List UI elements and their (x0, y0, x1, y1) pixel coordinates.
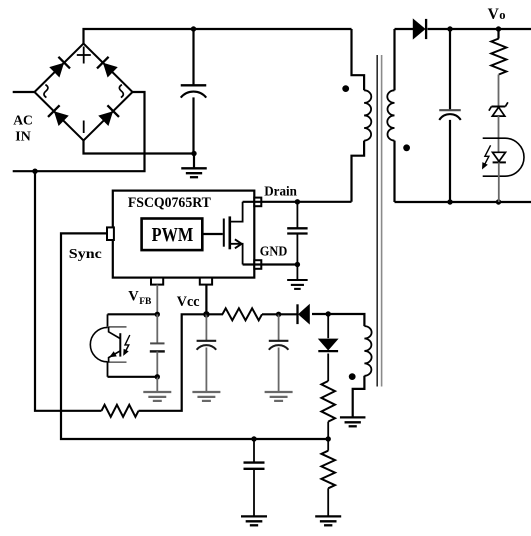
node aux winding junction (326, 311, 331, 316)
node Vo branch bottom (496, 199, 501, 204)
node bridge minus junction (191, 151, 196, 156)
node startup tap on AC line (32, 169, 37, 174)
secondary phase dot (403, 144, 410, 151)
Vo label (488, 6, 506, 23)
ground input side (181, 168, 207, 177)
node Vcc junction (203, 311, 209, 317)
svg-text:GND: GND (260, 245, 288, 260)
node output cap top (447, 26, 452, 31)
node input cap top (191, 26, 196, 31)
wire divider lower lead (327, 439, 329, 451)
wire resistor to zener (498, 75, 500, 107)
capacitor drain-GND C3 (287, 228, 307, 233)
wire startup line down (35, 171, 102, 411)
wire GND ground stub (296, 265, 298, 281)
wire zener to LED (498, 116, 500, 152)
optocoupler LED light arrow (482, 145, 491, 169)
svg-text:PWM: PWM (152, 224, 194, 246)
capacitor Vcc C6 (197, 341, 217, 350)
wire secondary top to diode (395, 28, 414, 30)
optocoupler LED envelope (483, 138, 524, 176)
wire diode to aux node (312, 313, 328, 315)
bridge diode lower-right (99, 105, 119, 125)
transformer auxiliary winding (364, 326, 371, 376)
wire Vcc pin lead (205, 285, 207, 315)
svg-text:Sync: Sync (69, 247, 102, 262)
wire LED to bottom rail (498, 162, 500, 202)
wire input cap top lead (192, 29, 194, 85)
svg-text:Drain: Drain (264, 185, 297, 200)
capacitor input bulk C1 (181, 85, 207, 97)
bridge rectifier BR1 outline (35, 44, 133, 141)
node bottom cap junction (251, 436, 256, 441)
transformer primary winding (364, 90, 371, 140)
wire bottom output rail (395, 201, 531, 203)
VFB label (128, 289, 152, 308)
pin Drain (254, 198, 261, 207)
wire optocoupler collector lead (107, 314, 109, 327)
node divider junction (326, 436, 331, 441)
wire secondary bottom lead (393, 141, 395, 202)
Sync label (69, 247, 102, 262)
wire diode to resistor (327, 354, 329, 382)
wire aux cap bottom lead (278, 348, 280, 393)
ground divider (315, 516, 341, 525)
wire Vcc cap top lead (205, 314, 207, 341)
resistor feedback upper (491, 39, 506, 75)
svg-text:IN: IN (15, 130, 30, 145)
transformer secondary winding (387, 90, 394, 140)
wire resistor to bottom rail (327, 422, 329, 439)
primary phase dot (342, 85, 349, 92)
AC IN label (13, 113, 33, 144)
capacitor aux C7 (269, 341, 289, 350)
ground sync cap (241, 516, 267, 525)
wire lower resistor ground lead (327, 488, 329, 516)
ground VFB (143, 392, 171, 401)
diode aux D2 (318, 339, 338, 351)
wire bridge minus to cap bottom (84, 141, 195, 154)
wire aux winding bottom lead (353, 376, 365, 418)
resistor startup R1 (102, 405, 139, 417)
diode output rectifier D1 (413, 19, 426, 39)
wire drain rail (243, 201, 352, 203)
wire cap node to diode (279, 313, 297, 315)
wire VFB to optocoupler (108, 313, 158, 315)
optocoupler phototransistor Q2 (90, 327, 126, 362)
wire sync to bottom rail (61, 233, 328, 439)
bridge diode upper-right (97, 57, 117, 77)
node output cap bottom (447, 199, 452, 204)
node GND junction (295, 262, 300, 267)
transformer core (377, 55, 381, 387)
ground aux winding (340, 417, 366, 426)
node VFB junction (155, 312, 160, 317)
wire bottom cap top lead (253, 439, 255, 463)
pin VFB (151, 278, 163, 285)
svg-text:FSCQ0765RT: FSCQ0765RT (128, 195, 211, 211)
svg-text:V: V (488, 6, 500, 23)
op-amp U1 FSCQ0765RT box (113, 191, 255, 278)
wire drain cap bottom lead (296, 234, 298, 265)
wire VFB cap top lead (156, 314, 158, 343)
resistor divider lower R4 (321, 451, 335, 489)
wire primary top lead (352, 29, 365, 90)
wire Vo to resistor (497, 29, 499, 39)
wire drain cap top lead (296, 202, 298, 228)
wire VFB pin lead (156, 285, 158, 315)
wire Vcc to resistor (206, 313, 223, 315)
bridge plus mark (77, 47, 91, 64)
bridge diode upper-left (50, 57, 70, 77)
pin Sync (107, 227, 114, 240)
PWM block (142, 219, 203, 251)
wire PWM to gate (202, 233, 223, 235)
wire resistor to aux cap node (262, 313, 279, 315)
svg-text:Vcc: Vcc (177, 294, 200, 310)
svg-text:V: V (128, 289, 139, 305)
GND label (260, 245, 288, 260)
wire VFB ground stub (156, 377, 158, 392)
Vcc label (177, 294, 200, 310)
svg-text:o: o (499, 8, 505, 22)
node aux cap junction (276, 312, 281, 317)
resistor Vcc R2 (222, 308, 262, 320)
wire secondary top lead (393, 29, 395, 90)
wire output cap bottom lead (449, 120, 451, 202)
ground aux cap (265, 392, 293, 401)
capacitor output C2 (439, 110, 461, 120)
node drain cap top (295, 199, 300, 204)
wire top output rail (428, 28, 531, 30)
pin GND (254, 260, 261, 269)
bridge diode lower-left (48, 105, 68, 125)
aux phase dot (349, 373, 356, 380)
node VFB bottom junction (155, 374, 160, 379)
wire AC terminal 1 (13, 91, 35, 93)
wire optocoupler to VFB bottom (108, 376, 158, 378)
optocoupler transistor light arrow (123, 335, 130, 356)
FSCQ0765RT label (128, 195, 211, 211)
wire aux node to winding (328, 314, 364, 326)
diode Vcc rectifier D3 (298, 304, 310, 324)
svg-text:AC: AC (13, 113, 33, 128)
wire Vcc cap bottom lead (205, 348, 207, 393)
wire aux node down (327, 314, 329, 338)
Drain label (264, 185, 297, 200)
optocoupler LED D4 (493, 152, 506, 162)
wire input cap bottom lead (192, 97, 194, 153)
node Vo branch top (496, 26, 501, 31)
svg-text:FB: FB (139, 297, 152, 307)
wire output cap top lead (449, 29, 451, 110)
ground GND pin (287, 280, 308, 289)
wire VFB cap bottom lead (156, 351, 158, 376)
bridge ac mark left (44, 85, 48, 98)
bridge ac mark right (119, 85, 123, 98)
wire GND pin to cap (243, 263, 298, 265)
wire aux cap top lead (278, 314, 280, 341)
zener diode ZD1 (489, 102, 508, 116)
capacitor VFB C5 (150, 343, 165, 351)
resistor divider upper R3 (321, 381, 335, 422)
wire optocoupler emitter lead (107, 362, 109, 377)
pin Vcc (200, 278, 212, 285)
wire AC terminal 2 to right bridge vertex (13, 92, 145, 171)
wire bridge plus to top rail (84, 29, 352, 44)
wire ground stub input (193, 154, 195, 169)
wire primary bottom lead (352, 141, 365, 202)
ground Vcc (192, 392, 220, 401)
transistor Q1 SenseFET (224, 202, 243, 265)
capacitor sync C4 (244, 463, 265, 469)
wire bottom cap ground lead (253, 469, 255, 517)
wire startup to Vcc node (139, 314, 207, 411)
bridge minus mark (83, 121, 85, 134)
